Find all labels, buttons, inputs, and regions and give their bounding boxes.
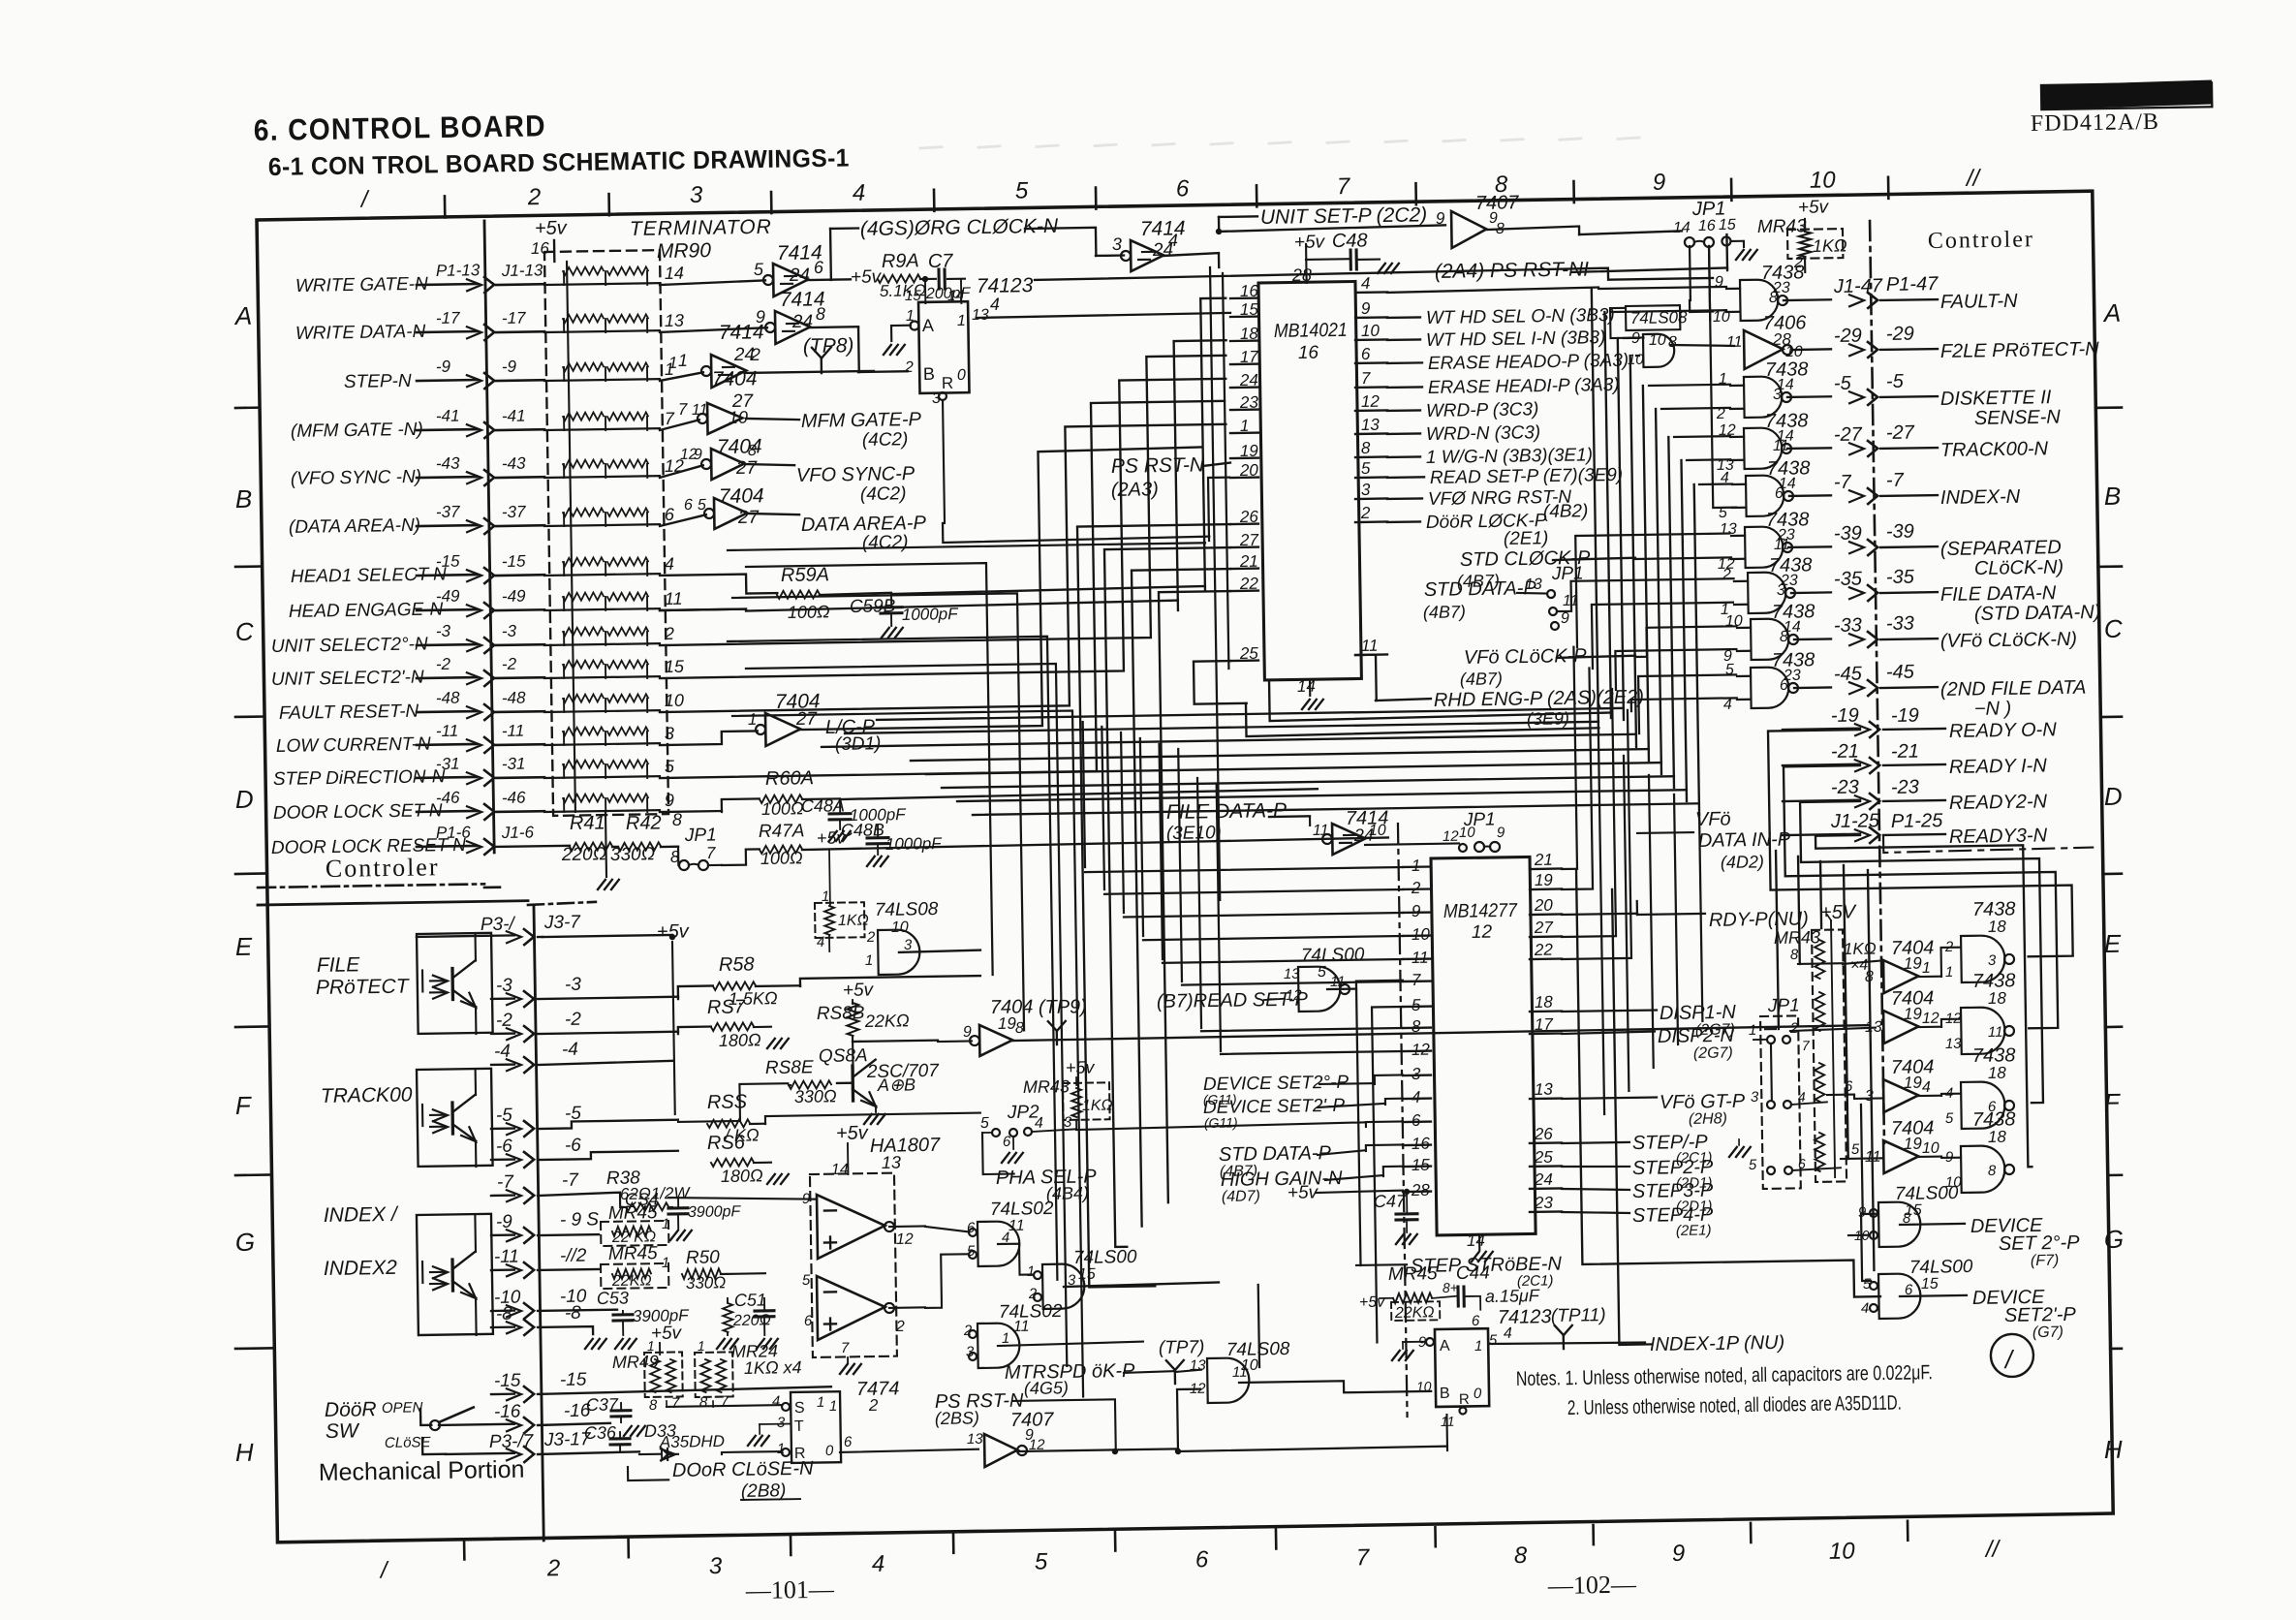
terminator pin 11 [665,589,683,608]
resistor MR43b [1022,1057,1113,1131]
wire READY2 loop [1800,798,2043,1106]
MB14277 left pin 2 [1403,879,1431,897]
svg-text:9: 9 [1361,299,1371,318]
svg-text:(VFö CLöCK-N): (VFö CLöCK-N) [1940,629,2077,652]
inverter 7404c (data area) [684,496,748,530]
wire 14021 p26 down [1077,524,1242,1287]
resistor MR43a [1792,231,1847,271]
svg-text:—102—: —102— [1547,1571,1637,1600]
wire mid bus 6 [942,776,1674,788]
svg-text:7: 7 [706,844,716,862]
IC 74123 monostable [918,301,969,393]
jumper JP1 circles [1685,236,1757,261]
svg-text:G: G [2104,1225,2125,1254]
NOR gate 74LS02a [966,1219,1019,1266]
resistor MR43a label [1756,197,1830,237]
svg-text:R: R [942,374,954,392]
label (2A4) PS RST-N1 [1435,258,1590,282]
wire p21 to SEP in1 [1575,534,1731,647]
svg-text:SET 2°-P: SET 2°-P [1999,1232,2081,1255]
wire R58 row [678,976,980,999]
grid tick (right) [2103,872,2122,875]
wire to MFM gate [660,420,699,430]
svg-text:9: 9 [1653,170,1666,196]
MB14277 left pin 10 [1403,925,1431,944]
svg-text:12: 12 [1412,1041,1431,1059]
capacitor C53 [597,1287,691,1349]
svg-text:5: 5 [1863,1276,1872,1293]
MB14277 right pin 20 [1530,896,1562,916]
svg-text:ERASE HEADI-P (3A3): ERASE HEADI-P (3A3) [1428,375,1620,398]
svg-text:A: A [922,316,934,335]
svg-text:(2E1): (2E1) [1504,528,1549,549]
wire R58B node [853,1035,939,1072]
svg-text:-35: -35 [1834,568,1863,589]
label UNIT SET-P (2C2) [1260,203,1428,229]
pin 8 label [672,810,682,829]
svg-text:6: 6 [1195,1546,1209,1573]
input signal (DATA AREA-N) (-37/-37) [289,501,545,538]
input -9 (index1) [491,1209,600,1243]
wire 7474 R input [722,1451,782,1454]
wire 7404f in [1790,946,1883,965]
svg-text:-31: -31 [502,755,526,773]
svg-text:-3: -3 [502,622,517,640]
grid tick (top) [770,192,773,213]
resistor R42 [618,842,661,851]
svg-text:180Ω: 180Ω [721,1166,763,1186]
svg-text:G: G [235,1228,256,1257]
MB14021 right pin 3 VFØ NRG RST-N [1355,478,1572,512]
wire jp1 14 down [1690,300,1713,312]
wire LS08b out to 74123b B [1239,1380,1431,1394]
svg-text:SENSE-N: SENSE-N [1974,407,2062,429]
svg-text:13: 13 [1284,966,1301,982]
output INDEX-N via 7438 [1718,454,2021,521]
terminator pin 15 [665,657,685,676]
MB14277 left pin 15 [1403,1156,1431,1174]
svg-text:5: 5 [665,757,675,776]
wire under 14021 b [1269,674,1612,721]
jumper JP1 (bottom) label [1767,995,1800,1016]
label +5v (MR49) [651,1324,683,1355]
svg-text:R58: R58 [719,953,755,976]
grid tick (bottom) [1434,1527,1437,1546]
svg-text:SW: SW [326,1419,360,1443]
MB14277 right pin 18 [1530,993,1562,1012]
svg-text:14: 14 [947,288,964,304]
terminator resistor pair row 2 [544,313,660,333]
svg-text:8: 8 [1015,1020,1024,1037]
wire under 14021 a [1246,698,1598,736]
MB14277 right pin 22 [1530,941,1562,960]
wire 7404h to 7438c [1918,1094,1961,1097]
input -2 (file protect) [491,1008,678,1043]
AND 74LS08c label [875,899,940,936]
svg-text:a.15μF: a.15μF [1485,1286,1540,1306]
label FILE DATA-P (3E10) [1165,799,1287,844]
label 7474 [856,1378,900,1415]
74123 pin 2 [904,359,914,376]
MB14277 left pin 6 [1403,1111,1431,1130]
svg-text:3: 3 [690,182,703,208]
MB14021 left pin 26 [1230,508,1259,526]
svg-text:-46: -46 [436,789,460,807]
wire R9A-C7 node [920,275,965,303]
wire JP1 row2 out [1791,1102,1827,1105]
grid tick (left) [235,715,264,718]
wire device set2deg [1319,1075,1403,1085]
svg-text:WRITE DATA-N: WRITE DATA-N [295,322,426,344]
label PS RST-N (2A3) [1110,453,1230,501]
grid tick (left) [235,1347,274,1350]
svg-text:(3D1): (3D1) [835,733,882,755]
svg-text:J1-47: J1-47 [1833,275,1883,297]
testpoint TP9 [1048,1021,1066,1044]
svg-text:15: 15 [905,288,922,304]
svg-text:10: 10 [891,919,909,936]
svg-text:J1-13: J1-13 [501,261,543,280]
JP1 bottom link wire [1753,1040,1772,1102]
resistor R57 [707,996,789,1051]
MB14021 right pin 11 [1355,637,1387,656]
svg-text:74LS00: 74LS00 [1301,945,1365,966]
svg-text:100Ω: 100Ω [761,798,804,819]
terminator resistor pair row 11 [544,693,660,713]
grid column label 9 (top) [1653,170,1666,196]
svg-text:330Ω: 330Ω [686,1273,727,1293]
svg-text:-3: -3 [436,622,451,640]
input -11 (index2) [491,1245,599,1278]
MR43c resistor 2 [1815,992,1825,1031]
label DEVICE SET2deg-P [1202,1073,1349,1107]
grid column label 5 (top) [1015,177,1029,203]
wire MB14277 pin5 feed [1372,1007,1408,1342]
svg-text:12: 12 [1361,392,1381,411]
svg-text:3: 3 [1361,481,1371,499]
label 28 (MB14021 vcc) [1291,265,1312,285]
svg-text:4: 4 [872,1551,885,1577]
MB14021 left pin 16 [1230,282,1259,300]
terminator ground [597,812,619,889]
grid row label A (left) [233,301,253,330]
wire 14277 p20 right [1562,901,1637,916]
wire vert bundle down extension [1598,734,1704,1114]
svg-text:(TP11): (TP11) [1551,1305,1606,1326]
grid column label 1 (bottom) [379,1557,389,1583]
JP1 bottom pins row2 [1751,1088,1806,1108]
page number -101- [745,1575,835,1604]
svg-text:4: 4 [1035,1115,1043,1132]
wire bus vertical 1833 [1762,851,1779,1029]
input signal WRITE GATE-N (P1-13/J1-13) [295,260,545,296]
svg-text:13: 13 [1361,416,1381,434]
label +5v (R9A) [851,266,883,288]
label STEP STROBE-N (2C1) [1356,1254,1563,1293]
resistor R58 [712,953,778,1009]
svg-text:WRD-P (3C3): WRD-P (3C3) [1426,399,1539,421]
input -6 (track00) [491,1134,678,1168]
svg-text:11: 11 [665,589,683,608]
svg-text:QS8A: QS8A [819,1045,868,1067]
opamp B (HA1807) [802,1270,905,1340]
label DISP1-N (2G7) [1562,1002,1737,1041]
svg-text:FAULT-N: FAULT-N [1940,291,2019,313]
svg-text:R60A: R60A [765,767,814,790]
grid row label F (left) [235,1091,253,1120]
svg-text:-15: -15 [494,1371,521,1391]
svg-text:-45: -45 [1886,662,1915,683]
svg-text:6-1 CON TROL BOARD SCHEMATI: 6-1 CON TROL BOARD SCHEMATIC DRAWINGS-1 [268,143,850,181]
wire vert LS00 feed [1846,1105,1877,1281]
wire MB14277 left feed 3 [1121,729,1403,918]
IC U-MB14021 [1258,281,1361,680]
grid tick (right) [2095,406,2122,409]
svg-text:25: 25 [1534,1148,1554,1167]
terminator +5V rail wire [554,240,575,812]
MB14021 right pin 12 WRD-P (3C3) [1355,389,1539,422]
title heading [254,109,547,147]
wire LS02b out [998,1342,1143,1346]
capacitor C51 [734,1290,778,1349]
grid row label B (left) [235,484,253,514]
svg-text:-11: -11 [436,722,459,740]
svg-text:(4D7): (4D7) [1222,1188,1260,1205]
svg-text:6: 6 [1845,1078,1853,1095]
svg-text:(VFO SYNC -N): (VFO SYNC -N) [291,467,421,489]
svg-text:2: 2 [527,184,542,210]
MB14021 left pin 20 [1230,461,1259,480]
svg-text:24: 24 [1534,1170,1553,1189]
wire top to fault gate [1035,266,1713,289]
svg-text:10: 10 [1361,322,1381,340]
grid tick (bottom) [627,1538,630,1557]
svg-text:14: 14 [665,264,684,283]
wire MR43a +5v [1804,219,1805,272]
NAND 74LS00b [1284,965,1350,1012]
grid tick (top) [1887,177,1890,199]
MB14277 left pin 12 [1403,1041,1431,1059]
svg-text:4: 4 [665,554,674,574]
MB14277 right pin 17 [1530,1015,1562,1035]
svg-text:R: R [1459,1391,1470,1408]
capacitor C44 [1431,1262,1540,1311]
svg-text:1: 1 [748,710,758,729]
svg-text:A: A [233,301,253,330]
svg-text:13: 13 [882,1153,901,1172]
wire vert 1050 hook [732,593,1024,1035]
label VFO DATA IN-P (4D2) [1637,807,1792,873]
svg-text:RS7: RS7 [707,996,746,1018]
svg-text:4: 4 [1922,1079,1931,1096]
svg-text:B: B [1440,1386,1450,1402]
svg-text:10: 10 [1810,167,1837,193]
svg-text:-41: -41 [502,407,526,425]
svg-text:13: 13 [1535,1080,1554,1099]
wire right vertical 1 [1592,287,1733,733]
svg-text:74LS00: 74LS00 [1895,1183,1959,1204]
svg-text:7: 7 [1412,971,1421,989]
wire bus vertical 1856 [1798,857,1800,964]
svg-text:4: 4 [990,295,1000,314]
svg-text:+5v: +5v [1288,1182,1319,1203]
terminator pin 12 [665,456,684,476]
svg-text:UNIT SELECT2'-N: UNIT SELECT2'-N [271,668,424,690]
svg-text:4: 4 [1861,1300,1870,1317]
label DEVICE SET2'-P (G7) [1972,1286,2077,1342]
svg-text:+5v: +5v [817,827,847,847]
resistor MR43a dashed box [1787,229,1843,259]
svg-text:8+: 8+ [1443,1280,1458,1295]
wire bus row735 to pin1 [655,424,1229,712]
optocoupler (track00) [417,1069,493,1168]
svg-text:C7: C7 [928,251,954,272]
svg-text:2: 2 [546,1555,561,1581]
wire vert 1090 hook [746,664,1067,1371]
svg-text:INDEX-1P (NU): INDEX-1P (NU) [1650,1332,1785,1355]
svg-text://: // [1984,1536,2001,1562]
svg-text:5: 5 [980,1115,989,1132]
svg-text:-39: -39 [1886,521,1914,543]
svg-text:(4C2): (4C2) [862,532,909,553]
svg-text:15: 15 [1719,217,1736,234]
label Controler (right) [1928,227,2034,254]
svg-text:(2A3): (2A3) [1111,479,1159,501]
terminator pin 10 [665,691,684,710]
wire mid bus 2 [845,722,1598,733]
svg-text:RSS: RSS [707,1091,748,1113]
resistor network MR49 [612,1337,684,1414]
svg-text:7: 7 [841,1340,850,1356]
resistor R41 label [570,812,605,834]
svg-text:(TP8): (TP8) [803,334,854,358]
grid row label E (left) [235,932,253,961]
wire R57 row [678,1026,771,1035]
svg-text:-37: -37 [502,503,526,521]
svg-text:74LS00: 74LS00 [1073,1247,1137,1268]
svg-text:PRöTECT: PRöTECT [316,975,411,999]
input signal (VFO SYNC -N) (-43/-43) [291,452,545,489]
svg-text:T: T [794,1418,804,1435]
grid row label F (right) [2104,1088,2122,1117]
wire 7474 out to 7407b [840,1449,978,1452]
grid tick (bottom) [1592,1525,1595,1544]
wire to VFO sync gate [660,465,703,478]
grid column label 8 (bottom) [1514,1542,1528,1569]
svg-text:1: 1 [662,1216,670,1232]
wire LS00b out [1327,981,1408,1266]
wire vert 1018 hook [746,563,993,979]
svg-text:A: A [1440,1338,1450,1355]
label INDEX-1P (NU) [1490,1332,1784,1358]
wire mid bus 1 [877,708,1624,720]
inverter 7404i label [1891,1117,1935,1153]
svg-text:6: 6 [684,497,693,514]
svg-text:-49: -49 [436,587,460,606]
svg-text:(2ND FILE DATA: (2ND FILE DATA [1940,677,2087,701]
svg-text:-15: -15 [560,1370,587,1390]
svg-text:23: 23 [1534,1194,1554,1212]
label PHA SEL-P (4B4) [996,1166,1098,1203]
wire 7404e out [1012,1025,1870,1041]
resistor R41 [570,842,612,851]
svg-text:F: F [2104,1088,2122,1117]
MB14021 right pin 13 WRD-N (3C3) [1355,413,1541,446]
grid row label E (right) [2104,929,2122,958]
wire JP1-16 to INDEX in2 [1709,246,1736,508]
IC HA1807 dashed box [810,1173,897,1357]
MB14277 right pin 23 [1530,1194,1562,1213]
svg-text:1: 1 [817,1394,825,1411]
grid tick (top) [933,190,936,211]
MB14021 right pin 6 ERASE HEADO-P (3A3) [1355,341,1629,376]
wire vert 1081 hook [728,637,1057,1285]
svg-text:-7: -7 [497,1172,515,1193]
grid row label D (right) [2104,782,2123,811]
terminator pin 5 [665,757,675,776]
output FILE PROTECT-N via 7406 [1725,308,2099,370]
wire 7406 in [1670,344,1734,347]
MB14021 left pin 21 [1230,552,1258,571]
svg-text:SET2'-P: SET2'-P [2004,1304,2077,1326]
svg-text:H: H [235,1438,254,1467]
wire to data area gate [660,514,706,526]
wire LS08b up [1258,1285,1259,1367]
svg-text:4: 4 [817,934,825,950]
opamp A (HA1807) [802,1189,914,1259]
output READY2-N [1783,774,2048,817]
svg-text:VFO SYNC-P: VFO SYNC-P [796,463,915,486]
svg-text:7: 7 [665,409,675,428]
wire R60A row [660,789,1318,813]
wire MB14277 left feed 1 [1083,717,1403,872]
label STD DATA-P (4B7) 2 [1219,1141,1404,1180]
wire terminator to 7414b [660,327,767,332]
svg-text:-4: -4 [562,1040,578,1060]
svg-text:19: 19 [1535,871,1554,889]
label INDEX 1 [324,1203,399,1227]
svg-text:READY O-N: READY O-N [1949,719,2058,742]
svg-text:7: 7 [1802,1038,1811,1053]
MB14021 right pin 2 DööR LØCK-P [1355,501,1547,534]
svg-text:-37: -37 [436,503,460,521]
svg-text:10: 10 [1829,1538,1856,1564]
svg-text:-8: -8 [565,1303,582,1324]
grid tick (top) [444,196,447,217]
grid tick (bottom) [463,1540,466,1559]
svg-text:READY I-N: READY I-N [1949,755,2048,778]
input P3-1/J3-7 [417,912,582,946]
wire opamp A inputs [668,1196,817,1201]
svg-text:B: B [2104,482,2122,511]
note line 1 [1516,1361,1933,1390]
svg-text:-//2: -//2 [560,1246,587,1266]
svg-text:(4C2): (4C2) [860,483,907,505]
svg-text:(G11): (G11) [1204,1114,1238,1131]
input -15 [491,1366,831,1403]
capacitor C54 [625,1188,742,1241]
svg-text:8: 8 [1988,1163,1997,1179]
svg-text:READY2-N: READY2-N [1949,791,2048,814]
svg-text:TRACK00: TRACK00 [321,1083,413,1106]
svg-text:(F7): (F7) [2031,1253,2060,1269]
NAND 7438a [1944,935,2015,982]
resistor R58B [816,980,910,1037]
AND 74LS08b label [1226,1339,1290,1374]
7474 T ground [748,1423,791,1446]
svg-text:1: 1 [698,1338,705,1354]
svg-text:R59A: R59A [781,564,829,586]
